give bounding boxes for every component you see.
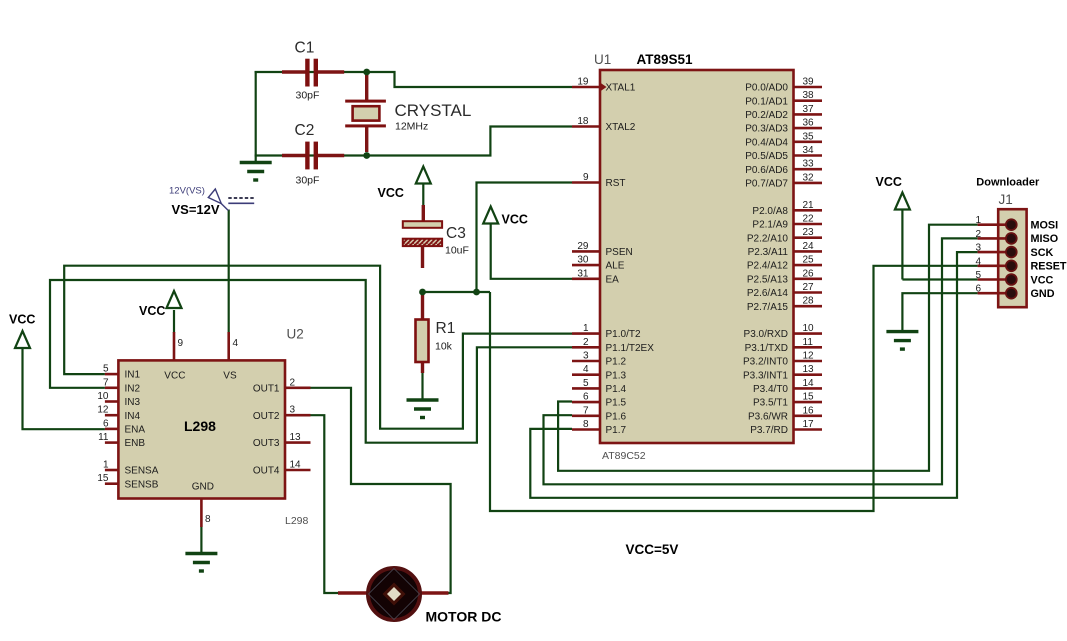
svg-text:Downloader: Downloader <box>976 176 1040 188</box>
svg-text:J1: J1 <box>999 192 1013 207</box>
svg-text:RESET: RESET <box>1031 261 1067 273</box>
svg-text:ENB: ENB <box>125 438 146 449</box>
svg-text:RST: RST <box>606 178 626 189</box>
svg-text:R1: R1 <box>436 320 456 337</box>
svg-text:P0.3/AD3: P0.3/AD3 <box>745 124 788 135</box>
svg-text:GND: GND <box>192 482 214 493</box>
svg-text:4: 4 <box>975 256 981 267</box>
svg-text:1: 1 <box>975 215 981 226</box>
svg-text:VCC: VCC <box>1031 274 1054 286</box>
svg-text:12: 12 <box>803 351 815 362</box>
svg-text:32: 32 <box>803 172 815 183</box>
svg-text:P1.4: P1.4 <box>606 384 627 395</box>
svg-text:XTAL2: XTAL2 <box>606 122 636 133</box>
svg-text:OUT2: OUT2 <box>253 411 280 422</box>
svg-text:14: 14 <box>803 378 815 389</box>
svg-text:14: 14 <box>290 460 302 471</box>
svg-text:2: 2 <box>290 377 296 388</box>
svg-text:28: 28 <box>803 296 815 307</box>
svg-text:10: 10 <box>803 323 815 334</box>
svg-text:VCC: VCC <box>876 175 902 189</box>
svg-text:33: 33 <box>803 159 815 170</box>
svg-text:34: 34 <box>803 145 815 156</box>
svg-text:P0.6/AD6: P0.6/AD6 <box>745 165 788 176</box>
svg-text:19: 19 <box>577 77 589 88</box>
svg-text:4: 4 <box>233 338 239 349</box>
svg-text:37: 37 <box>803 104 815 115</box>
svg-text:MISO: MISO <box>1031 233 1059 245</box>
svg-text:P2.7/A15: P2.7/A15 <box>747 302 789 313</box>
svg-text:3: 3 <box>975 243 981 254</box>
svg-text:IN1: IN1 <box>125 370 141 381</box>
svg-text:SENSB: SENSB <box>125 479 159 490</box>
svg-text:IN4: IN4 <box>125 411 141 422</box>
svg-text:P1.1/T2EX: P1.1/T2EX <box>606 343 655 354</box>
svg-text:P1.0/T2: P1.0/T2 <box>606 329 641 340</box>
svg-text:P0.0/AD0: P0.0/AD0 <box>745 83 788 94</box>
svg-text:VCC: VCC <box>164 371 185 382</box>
svg-text:6: 6 <box>583 392 589 403</box>
svg-text:VS=12V: VS=12V <box>172 202 220 217</box>
svg-text:L298: L298 <box>184 418 216 434</box>
svg-text:VCC: VCC <box>378 186 404 200</box>
svg-text:11: 11 <box>98 432 109 443</box>
svg-text:1: 1 <box>103 460 109 471</box>
svg-text:VS: VS <box>223 371 237 382</box>
svg-text:6: 6 <box>975 284 981 295</box>
svg-text:AT89S51: AT89S51 <box>637 52 694 67</box>
svg-text:ALE: ALE <box>606 261 625 272</box>
svg-text:3: 3 <box>290 405 296 416</box>
svg-text:17: 17 <box>803 419 815 430</box>
svg-text:P0.2/AD2: P0.2/AD2 <box>745 110 788 121</box>
svg-text:C1: C1 <box>295 40 315 57</box>
svg-text:P0.1/AD1: P0.1/AD1 <box>745 96 788 107</box>
svg-text:8: 8 <box>205 514 211 525</box>
svg-text:CRYSTAL: CRYSTAL <box>395 101 472 120</box>
svg-text:25: 25 <box>803 255 815 266</box>
svg-text:9: 9 <box>178 338 184 349</box>
svg-text:P2.3/A11: P2.3/A11 <box>748 247 789 258</box>
svg-text:P3.5/T1: P3.5/T1 <box>753 398 788 409</box>
svg-text:P1.7: P1.7 <box>606 425 627 436</box>
svg-text:VCC: VCC <box>139 304 165 318</box>
svg-text:GND: GND <box>1031 288 1055 300</box>
svg-text:31: 31 <box>577 268 589 279</box>
svg-text:P2.2/A10: P2.2/A10 <box>747 233 789 244</box>
svg-text:23: 23 <box>803 227 815 238</box>
svg-text:OUT3: OUT3 <box>253 438 280 449</box>
svg-text:P0.4/AD4: P0.4/AD4 <box>745 137 788 148</box>
svg-text:15: 15 <box>803 392 815 403</box>
svg-text:35: 35 <box>803 131 815 142</box>
svg-text:5: 5 <box>583 378 589 389</box>
svg-text:6: 6 <box>103 418 109 429</box>
svg-text:VCC: VCC <box>502 213 528 227</box>
svg-text:11: 11 <box>803 337 814 348</box>
svg-text:27: 27 <box>803 282 815 293</box>
svg-text:21: 21 <box>803 200 815 211</box>
svg-text:IN2: IN2 <box>125 383 141 394</box>
svg-text:13: 13 <box>803 364 815 375</box>
svg-text:9: 9 <box>583 172 589 183</box>
svg-text:C3: C3 <box>446 225 466 242</box>
svg-text:AT89C52: AT89C52 <box>602 450 646 462</box>
svg-text:30pF: 30pF <box>296 175 320 187</box>
svg-text:12MHz: 12MHz <box>395 121 428 133</box>
svg-text:P1.5: P1.5 <box>606 398 627 409</box>
svg-text:SCK: SCK <box>1031 247 1054 259</box>
svg-text:2: 2 <box>583 337 589 348</box>
svg-text:P2.1/A9: P2.1/A9 <box>752 220 788 231</box>
svg-text:P3.0/RXD: P3.0/RXD <box>744 329 788 340</box>
svg-text:P1.6: P1.6 <box>606 411 627 422</box>
svg-text:P2.4/A12: P2.4/A12 <box>747 261 789 272</box>
svg-text:EA: EA <box>606 274 620 285</box>
svg-text:P0.7/AD7: P0.7/AD7 <box>745 179 788 190</box>
svg-text:P3.7/RD: P3.7/RD <box>750 425 788 436</box>
svg-text:8: 8 <box>583 419 589 430</box>
svg-text:P0.5/AD5: P0.5/AD5 <box>745 151 788 162</box>
svg-text:7: 7 <box>583 405 589 416</box>
svg-text:P3.3/INT1: P3.3/INT1 <box>743 370 788 381</box>
svg-text:P3.1/TXD: P3.1/TXD <box>745 343 788 354</box>
svg-text:3: 3 <box>583 351 589 362</box>
svg-text:30pF: 30pF <box>296 90 320 102</box>
svg-text:P3.6/WR: P3.6/WR <box>748 411 788 422</box>
svg-text:OUT4: OUT4 <box>253 466 280 477</box>
svg-text:P1.3: P1.3 <box>606 370 627 381</box>
svg-text:VCC: VCC <box>9 313 35 327</box>
svg-text:18: 18 <box>577 116 589 127</box>
svg-text:XTAL1: XTAL1 <box>606 83 636 94</box>
svg-text:16: 16 <box>803 405 815 416</box>
svg-text:L298: L298 <box>285 515 309 527</box>
svg-text:5: 5 <box>103 364 109 375</box>
svg-text:22: 22 <box>803 214 815 225</box>
svg-text:OUT1: OUT1 <box>253 383 280 394</box>
svg-text:15: 15 <box>97 473 109 484</box>
svg-text:U1: U1 <box>594 52 611 67</box>
svg-text:1: 1 <box>583 323 589 334</box>
svg-text:10: 10 <box>97 391 109 402</box>
svg-text:12V(VS): 12V(VS) <box>169 186 205 197</box>
svg-text:26: 26 <box>803 268 815 279</box>
svg-text:24: 24 <box>803 241 815 252</box>
svg-text:C2: C2 <box>295 122 315 139</box>
svg-text:VCC=5V: VCC=5V <box>626 542 679 557</box>
svg-text:P2.6/A14: P2.6/A14 <box>747 288 789 299</box>
svg-text:30: 30 <box>577 255 589 266</box>
svg-text:10k: 10k <box>435 341 453 353</box>
svg-text:10uF: 10uF <box>445 245 469 257</box>
svg-text:P3.4/T0: P3.4/T0 <box>753 384 788 395</box>
svg-text:P1.2: P1.2 <box>606 357 627 368</box>
svg-text:IN3: IN3 <box>125 397 141 408</box>
svg-text:29: 29 <box>577 241 589 252</box>
svg-text:ENA: ENA <box>125 425 146 436</box>
svg-text:P2.0/A8: P2.0/A8 <box>752 206 788 217</box>
svg-text:2: 2 <box>975 229 981 240</box>
svg-text:13: 13 <box>290 432 302 443</box>
svg-text:MOSI: MOSI <box>1031 220 1059 232</box>
svg-text:PSEN: PSEN <box>606 247 633 258</box>
svg-text:36: 36 <box>803 118 815 129</box>
svg-text:U2: U2 <box>287 327 304 342</box>
svg-text:P3.2/INT0: P3.2/INT0 <box>743 357 788 368</box>
svg-text:4: 4 <box>583 364 589 375</box>
svg-text:12: 12 <box>97 405 109 416</box>
svg-text:MOTOR DC: MOTOR DC <box>426 609 502 625</box>
svg-text:P2.5/A13: P2.5/A13 <box>747 274 789 285</box>
svg-text:SENSA: SENSA <box>125 466 159 477</box>
svg-text:39: 39 <box>803 77 815 88</box>
svg-text:5: 5 <box>975 270 981 281</box>
svg-text:7: 7 <box>103 377 109 388</box>
svg-text:38: 38 <box>803 90 815 101</box>
